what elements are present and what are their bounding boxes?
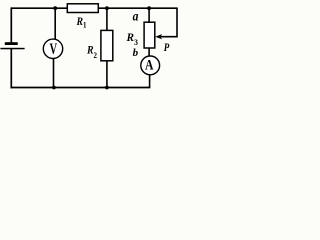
ammeter A xyxy=(141,56,160,75)
battery negative plate xyxy=(0,48,24,50)
junction dot top R3 xyxy=(147,6,151,10)
voltmeter V xyxy=(43,39,62,58)
resistor R2 xyxy=(101,30,113,60)
wire R2 branch xyxy=(106,8,108,87)
wire bottom xyxy=(11,87,151,89)
junction dot bottom voltmeter xyxy=(52,86,56,90)
wire R3 to ammeter xyxy=(148,48,150,58)
resistor R3 xyxy=(144,22,155,48)
junction dot bottom R2 xyxy=(105,86,109,90)
resistor R1 xyxy=(67,4,98,13)
wire ammeter bottom xyxy=(149,73,151,88)
wire left vertical xyxy=(10,7,12,42)
wire voltmeter branch bottom xyxy=(53,53,55,88)
wire voltmeter branch top xyxy=(54,8,56,44)
slider arrow P xyxy=(155,34,162,39)
wire left lower vertical xyxy=(10,49,12,89)
junction dot top voltmeter xyxy=(53,6,57,10)
svg-text:A: A xyxy=(145,58,154,74)
battery positive plate xyxy=(5,42,18,45)
svg-text:V: V xyxy=(50,41,58,58)
wire R3 branch top xyxy=(148,8,150,22)
svg-text:a: a xyxy=(133,10,139,25)
junction dot top R2 xyxy=(105,6,109,10)
svg-text:b: b xyxy=(133,47,139,59)
wire top xyxy=(11,7,178,9)
svg-text:P: P xyxy=(164,42,170,54)
wire right loop to slider xyxy=(161,8,178,37)
